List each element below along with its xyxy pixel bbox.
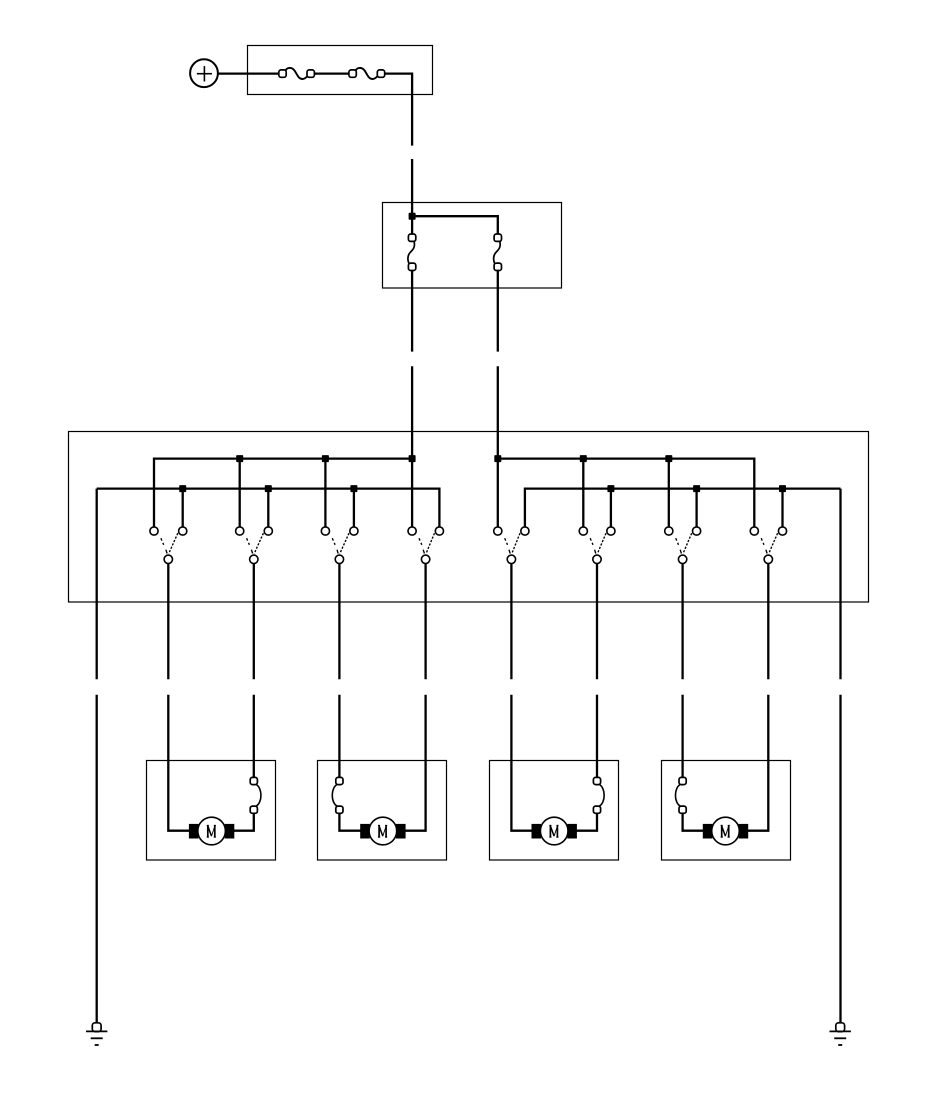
fuse block box [248, 46, 433, 95]
lower bus left half [97, 489, 440, 527]
window motor box 4 (rear right) [662, 761, 791, 861]
wire SW7 common down to connector gap [681, 564, 683, 680]
wire motor box 4 right side to motor [747, 761, 768, 831]
lower bus right half [525, 489, 841, 527]
circuit breaker CB1 (left) [408, 234, 416, 271]
window motor box 3 (front right) [490, 761, 619, 861]
wire SW2 common down to connector gap [253, 564, 255, 680]
junction lower-right bus at SW8 [779, 485, 786, 492]
motor M3 [532, 817, 577, 845]
wire motor box 1 left side to motor [168, 761, 190, 831]
switch SW6 [579, 527, 615, 564]
wire thermal protector to motor 2 [339, 813, 361, 830]
switch SW1 [150, 527, 187, 564]
wire motor box 2 right side to motor [404, 761, 425, 831]
wire into motor box 4 right branch [767, 695, 769, 761]
junction lower-left bus at SW3 [350, 485, 357, 492]
junction upper-right bus at SW5 feed [494, 455, 501, 462]
fusible link FL1 [279, 68, 315, 79]
wire bus droppers to SW2 terminals [240, 459, 269, 527]
ground G1 (left) [86, 1023, 107, 1045]
junction lower-left bus at SW1 [179, 485, 186, 492]
wire thermal protector to motor 1 [233, 813, 254, 830]
wire bus droppers to SW5 terminals [497, 459, 499, 527]
wire between fusible links [314, 72, 349, 74]
wire left ground run (gap to ground G1) [96, 695, 98, 1024]
junction upper-left bus at SW2 [236, 455, 243, 462]
window motor box 1 (front left) [147, 761, 276, 861]
wire feed into relay box (below connector gap) [411, 159, 413, 216]
switch SW5 [494, 527, 529, 564]
thermal protector motor 4 [675, 777, 686, 813]
wire SW5 common down to connector gap [510, 564, 512, 680]
wire thermal protector to motor 3 [576, 813, 597, 830]
wire into motor box 3 right branch [596, 695, 598, 761]
wire bus droppers to SW6 terminals [583, 459, 611, 527]
upper bus right half [498, 459, 755, 527]
thermal protector motor 1 [250, 777, 261, 813]
wire bus droppers to SW4 terminals [411, 459, 413, 527]
ground G2 (right) [830, 1023, 851, 1045]
wire thermal protector to motor 4 [683, 813, 704, 830]
wire junction to left breaker [411, 216, 413, 234]
wire motor box 2 left drop to thermal protector [338, 761, 340, 778]
wire SW1 common down to connector gap [167, 564, 169, 680]
wire right ground run (gap to ground G2) [839, 695, 841, 1024]
switch SW2 [236, 527, 273, 564]
switch SW3 [321, 527, 358, 564]
wire bus droppers to SW1 terminals [182, 489, 184, 527]
switch SW7 [665, 527, 701, 564]
wire CB2 down to connector gap [497, 271, 499, 352]
junction upper-right bus at SW6 [580, 455, 587, 462]
switch SW4 [408, 527, 444, 564]
wire left ground run (lower bus end down to gap) [96, 489, 98, 680]
junction upper-left bus at SW4 feed [409, 455, 416, 462]
junction lower-left bus at SW2 [265, 485, 272, 492]
motor M1 [189, 817, 234, 845]
wire junction to right breaker drop [412, 216, 498, 234]
wire SW8 common down to connector gap [767, 564, 769, 680]
wire CB1 continue to left upper bus [411, 366, 413, 458]
wire CB2 continue to right upper bus [497, 366, 499, 458]
junction upper-right bus at SW7 [665, 455, 672, 462]
wire motor box 1 right drop to thermal protector [253, 761, 255, 778]
wire into motor box 2 left branch [338, 695, 340, 761]
wire bus droppers to SW3 terminals [325, 459, 354, 527]
motor M2 [360, 817, 405, 845]
thermal protector motor 2 [332, 777, 343, 813]
upper bus left half [154, 459, 412, 527]
window motor box 2 (rear left) [318, 761, 447, 861]
circuit breaker box [383, 203, 562, 289]
wire motor box 4 left drop to thermal protector [681, 761, 683, 778]
wire right ground run (lower bus end down to gap) [839, 489, 841, 680]
wire into motor box 3 left branch [510, 695, 512, 761]
power window master switch box [69, 432, 869, 603]
wire motor box 3 left side to motor [511, 761, 532, 831]
wire motor box 3 right drop to thermal protector [596, 761, 598, 778]
wire SW6 common down to connector gap [596, 564, 598, 680]
wire SW3 common down to connector gap [338, 564, 340, 680]
switch SW8 [750, 527, 786, 564]
wire bus droppers to SW8 terminals [781, 489, 783, 527]
wire CB1 down to connector gap [411, 271, 413, 352]
wire into motor box 2 right branch [424, 695, 426, 761]
junction node feed split [409, 213, 416, 220]
wire into motor box 1 right branch [253, 695, 255, 761]
thermal protector motor 3 [593, 777, 604, 813]
wire bus droppers to SW7 terminals [669, 459, 697, 527]
junction upper-left bus at SW3 [322, 455, 329, 462]
circuit breaker CB2 (right) [494, 234, 502, 271]
motor M4 [703, 817, 748, 845]
battery positive terminal B+ [190, 59, 218, 87]
wire battery to fuse block [218, 72, 280, 74]
junction lower-right bus at SW7 [693, 485, 700, 492]
wire into motor box 4 left branch [681, 695, 683, 761]
fusible link FL2 [349, 68, 385, 79]
wire into motor box 1 left branch [167, 695, 169, 761]
junction lower-right bus at SW6 [607, 485, 614, 492]
wire FL2 to bend at top right of fuse block [385, 74, 412, 146]
wire SW4 common down to connector gap [424, 564, 426, 680]
